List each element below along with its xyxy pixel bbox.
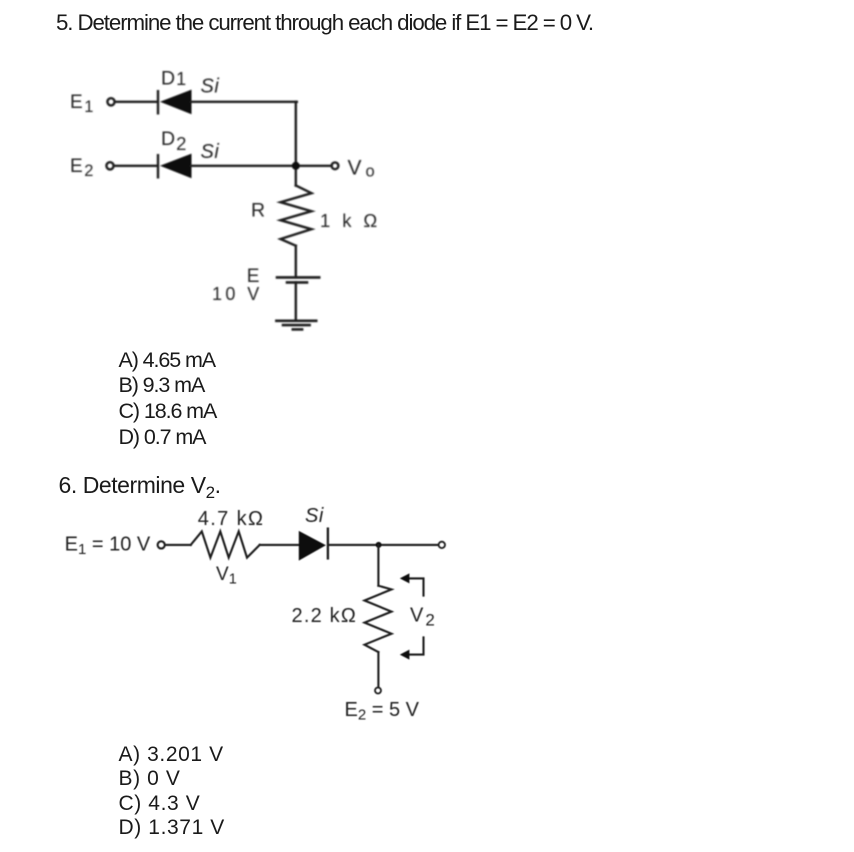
svg-text:E2: E2 — [70, 156, 93, 180]
svg-text:10 V: 10 V — [212, 284, 263, 304]
wire E1 terminal to diode D1 — [116, 101, 158, 103]
svg-text:V2: V2 — [410, 605, 435, 630]
V2 polarity arrow top — [400, 573, 424, 595]
label D1 — [161, 67, 186, 89]
label E1 — [70, 92, 93, 116]
wire resistor to diode — [260, 544, 299, 546]
wire D2 to Vo terminal — [192, 165, 332, 167]
diode D1 (cathode bar + triangle) — [158, 90, 192, 115]
svg-text:Si: Si — [201, 141, 220, 163]
V2 polarity arrow bottom — [400, 637, 424, 659]
wire junction down to resistor 2.2k — [377, 545, 379, 586]
wire vertical from D1 row down to resistor R — [295, 102, 297, 186]
resistor 4.7 kohm zigzag — [191, 531, 260, 557]
terminal E2 — [375, 688, 381, 694]
wire D1 to node column — [192, 101, 297, 103]
wire E2 terminal to diode D2 — [115, 165, 158, 167]
question 5 options — [119, 348, 217, 450]
label 1 k ohm — [320, 210, 381, 231]
label E1 = 10 V — [65, 534, 151, 559]
svg-text:R: R — [251, 200, 265, 222]
label E2 = 5 V — [345, 699, 420, 724]
wire terminal to resistor 4.7k — [166, 544, 191, 546]
output terminal — [439, 542, 445, 548]
svg-text:E1 = 10 V: E1 = 10 V — [65, 534, 151, 559]
wire battery to ground — [295, 282, 297, 320]
svg-text:2.2 kΩ: 2.2 kΩ — [292, 605, 358, 627]
label Si — [305, 505, 324, 527]
svg-text:4.7 kΩ: 4.7 kΩ — [198, 508, 265, 530]
svg-text:E1: E1 — [70, 92, 93, 116]
ground — [276, 321, 316, 330]
svg-text:Vo: Vo — [348, 157, 375, 181]
label 2.2 kohm — [292, 605, 358, 627]
wire diode to output terminal — [329, 544, 438, 546]
terminal E2 — [106, 162, 113, 169]
diode D2 (cathode bar + triangle) — [158, 154, 192, 179]
battery E plates — [277, 277, 319, 282]
wire resistor to battery E — [295, 246, 297, 278]
label 10 V — [212, 284, 263, 304]
label V2 — [410, 605, 435, 630]
svg-text:D1: D1 — [161, 67, 186, 89]
wire resistor 2.2k to E2 terminal — [377, 652, 379, 687]
svg-text:Si: Si — [305, 505, 324, 527]
label 4.7 kohm — [198, 508, 265, 530]
svg-text:D2: D2 — [161, 128, 186, 154]
svg-text:E2 = 5 V: E2 = 5 V — [345, 699, 420, 724]
terminal Vo — [332, 162, 339, 169]
terminal E1 — [158, 541, 165, 548]
diode Si (triangle + cathode bar) — [299, 529, 328, 561]
resistor R zigzag — [281, 186, 312, 246]
label Si for D1 — [201, 76, 220, 98]
terminal E1 — [107, 98, 114, 105]
svg-text:V1: V1 — [216, 564, 237, 588]
question 6 options — [119, 743, 225, 841]
junction node dot — [292, 162, 300, 170]
label E — [247, 266, 260, 287]
label E2 — [70, 156, 93, 180]
svg-text:Si: Si — [201, 76, 220, 98]
junction node dot — [376, 542, 382, 548]
label Vo — [348, 157, 375, 181]
label R — [251, 200, 265, 222]
resistor 2.2 kohm zigzag — [365, 586, 392, 652]
question 6 title — [59, 470, 221, 508]
label Si for D2 — [201, 141, 220, 163]
label D2 — [161, 128, 186, 154]
question 5 title — [56, 10, 593, 35]
label V1 — [216, 564, 237, 588]
svg-text:1 k Ω: 1 k Ω — [320, 210, 381, 231]
